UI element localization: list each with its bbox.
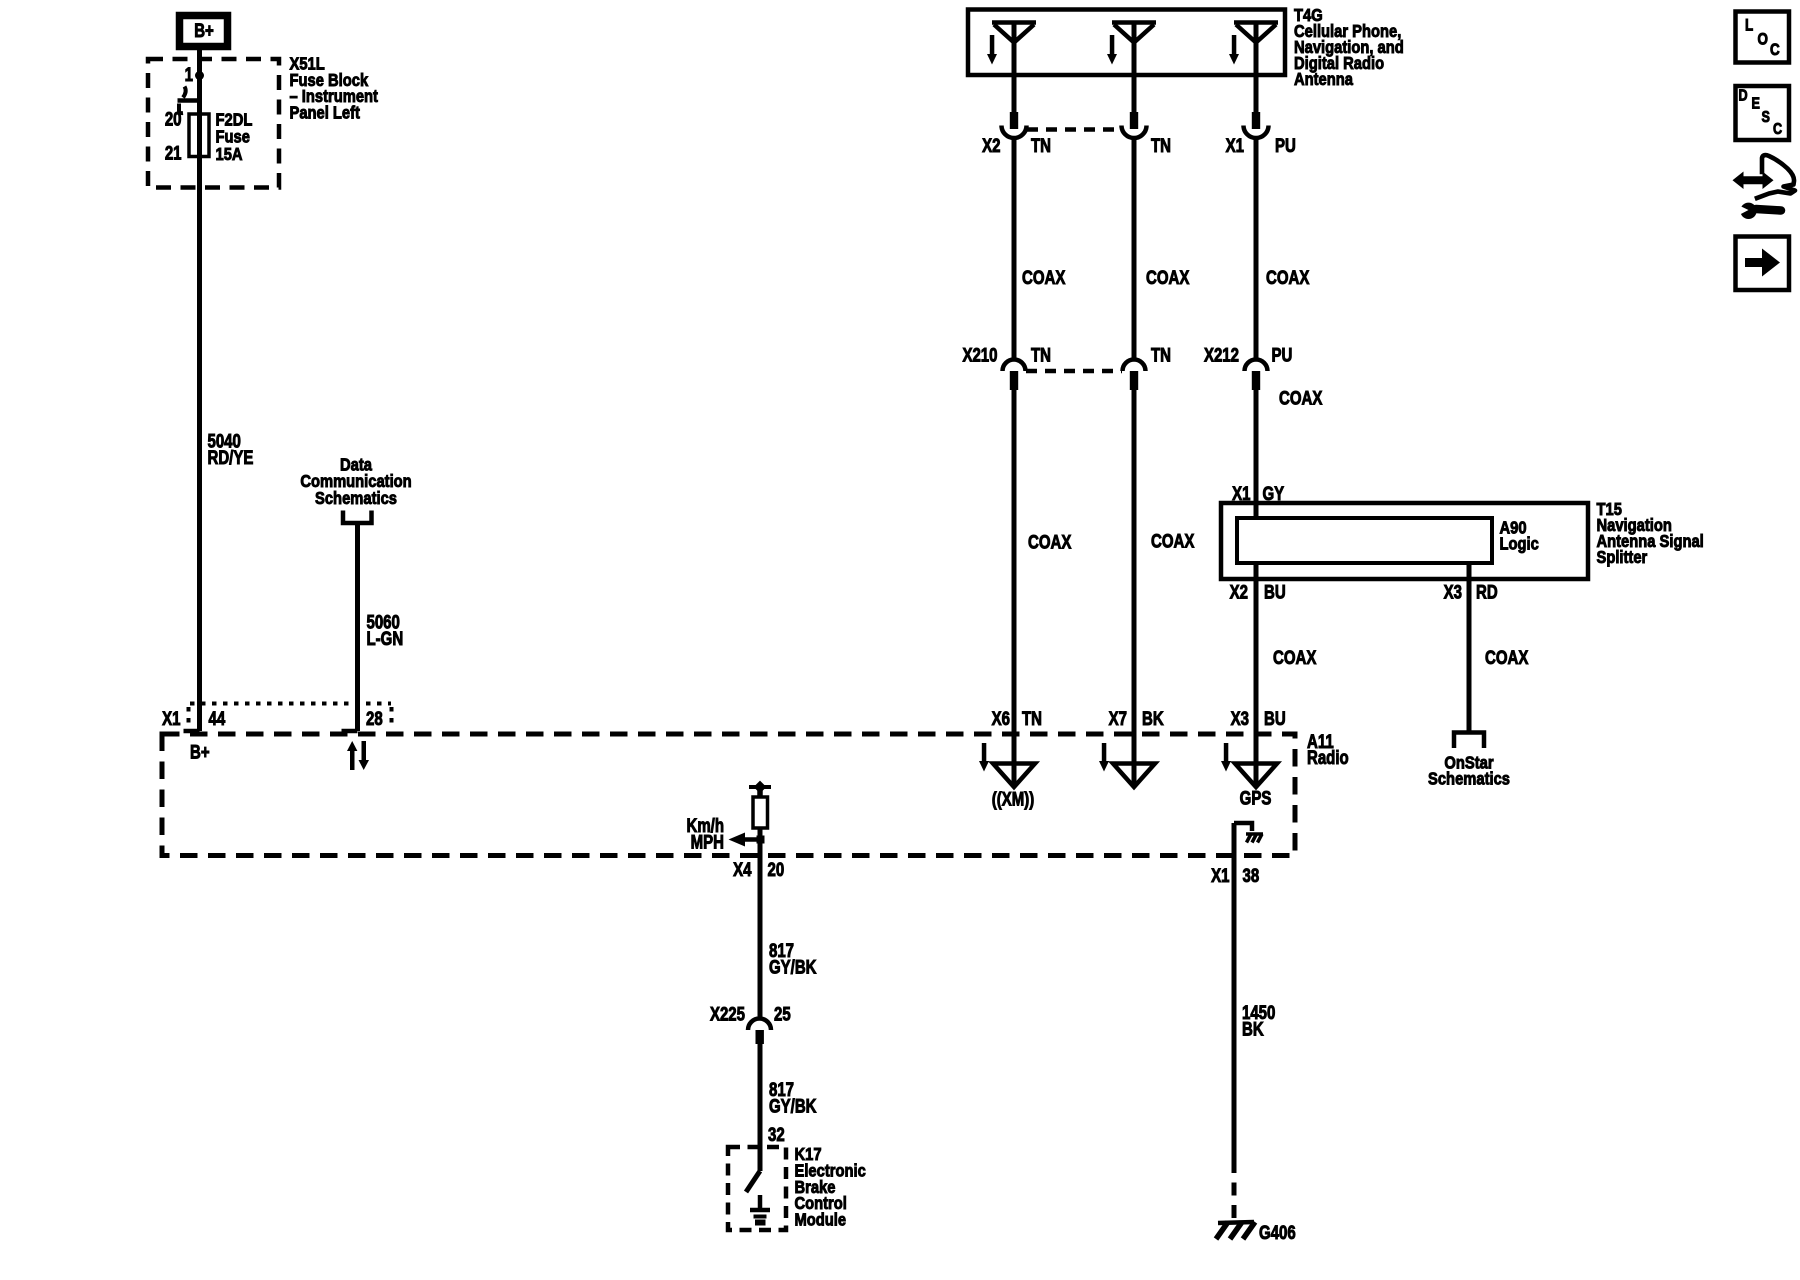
connector row1 male pin 1: [1010, 112, 1018, 129]
svg-text:X6: X6: [992, 708, 1010, 729]
coax wire col3 to splitter: [1254, 390, 1259, 518]
svg-text:TN: TN: [1022, 708, 1042, 729]
dashed connector link row1: [1027, 127, 1122, 132]
coax wire col3 upper: [1254, 139, 1259, 359]
svg-text:X4: X4: [733, 859, 752, 880]
svg-text:Module: Module: [795, 1210, 847, 1230]
signal down arrow aux: [1099, 743, 1109, 772]
svg-text:BK: BK: [1242, 1019, 1264, 1040]
svg-text:28: 28: [366, 708, 383, 729]
svg-text:BU: BU: [1264, 582, 1286, 603]
svg-text:COAX: COAX: [1022, 267, 1066, 288]
svg-text:GY/BK: GY/BK: [769, 1096, 817, 1117]
svg-text:B+: B+: [194, 20, 214, 41]
connector X225 male pin: [756, 1030, 764, 1044]
splitter T15 outer box: [1221, 503, 1588, 579]
svg-text:PU: PU: [1272, 345, 1293, 366]
wire splitter X2 output: [1254, 563, 1259, 787]
coax wire col1 upper: [1012, 139, 1017, 359]
terminal foot pin 28: [342, 729, 358, 734]
svg-text:X225: X225: [710, 1004, 745, 1025]
svg-text:X3: X3: [1231, 708, 1249, 729]
connector row1 male pin 3: [1252, 112, 1260, 129]
connector X225 female cup: [748, 1019, 771, 1031]
ground symbol inside K17: [750, 1195, 770, 1223]
svg-text:COAX: COAX: [1266, 267, 1310, 288]
svg-text:GY/BK: GY/BK: [769, 957, 817, 978]
svg-text:Schematics: Schematics: [315, 489, 397, 509]
icon DESC box: [1736, 86, 1790, 140]
svg-text:X1: X1: [1226, 135, 1245, 156]
coax wire col2 upper: [1132, 139, 1137, 359]
module K17 dashed box: [728, 1147, 786, 1230]
bus bar clip symbol: [178, 87, 202, 114]
junction dot speed signal: [757, 836, 765, 844]
svg-text:1: 1: [185, 64, 194, 85]
battery feed B+ symbol: [180, 16, 228, 47]
dashed connector link row2: [1026, 369, 1122, 374]
connector row1 female cup 3: [1244, 126, 1269, 139]
radio A11 dashed box: [162, 734, 1295, 856]
wire to K17: [758, 1044, 763, 1171]
svg-text:TN: TN: [1031, 345, 1051, 366]
svg-text:X3: X3: [1444, 582, 1462, 603]
svg-text:20: 20: [768, 859, 785, 880]
svg-text:BU: BU: [1264, 708, 1286, 729]
svg-text:COAX: COAX: [1146, 267, 1190, 288]
svg-text:25: 25: [774, 1004, 791, 1025]
connector row1 female cup 1: [1002, 126, 1027, 139]
connector row2 male pin 1: [1010, 371, 1018, 390]
svg-text:O: O: [1758, 30, 1769, 49]
svg-text:38: 38: [1243, 865, 1260, 886]
terminal foot pin 44: [184, 729, 200, 734]
svg-text:COAX: COAX: [1485, 647, 1529, 668]
svg-text:((XM)): ((XM)): [992, 789, 1034, 810]
connector row1 male pin 2: [1130, 112, 1138, 129]
node 1 junction dot: [195, 71, 204, 80]
svg-text:15A: 15A: [216, 145, 243, 165]
connector row1 female cup 2: [1122, 126, 1147, 139]
antenna 3 mast wire: [1254, 24, 1259, 113]
svg-text:20: 20: [165, 109, 182, 130]
switch inside K17: [746, 1171, 760, 1192]
connector row2 male pin 2: [1130, 371, 1138, 390]
svg-text:COAX: COAX: [1279, 388, 1323, 409]
svg-text:Logic: Logic: [1500, 534, 1539, 554]
svg-text:X212: X212: [1204, 345, 1239, 366]
svg-text:L: L: [1745, 16, 1753, 35]
svg-text:PU: PU: [1275, 135, 1296, 156]
svg-text:X2: X2: [1230, 582, 1248, 603]
wire splitter X3 output: [1467, 563, 1472, 732]
svg-text:D: D: [1739, 87, 1748, 105]
svg-text:Antenna: Antenna: [1294, 70, 1354, 90]
off-page bracket OnStar: [1454, 733, 1484, 749]
svg-text:44: 44: [209, 708, 226, 729]
signal down arrow XM: [979, 743, 989, 772]
svg-text:Splitter: Splitter: [1597, 548, 1648, 568]
svg-text:S: S: [1762, 109, 1771, 127]
connector row2 female cup 2: [1123, 360, 1146, 371]
gps shield ground branch: [1234, 823, 1252, 831]
radio antenna wedge aux: [1113, 764, 1155, 788]
svg-text:21: 21: [165, 143, 182, 164]
svg-text:Schematics: Schematics: [1428, 769, 1510, 789]
wire resistor to junction: [758, 828, 763, 843]
svg-text:GPS: GPS: [1240, 788, 1272, 809]
svg-text:BK: BK: [1142, 708, 1164, 729]
svg-text:TN: TN: [1031, 135, 1051, 156]
antenna 1 mast wire: [1012, 24, 1017, 113]
svg-text:X1: X1: [162, 708, 181, 729]
svg-text:X7: X7: [1109, 708, 1127, 729]
fuse block X51L dashed box: [148, 59, 279, 188]
svg-text:RD/YE: RD/YE: [208, 447, 254, 468]
connector row2 male pin 3: [1252, 371, 1260, 390]
serial data up/down arrows: [347, 741, 369, 770]
internal node T with dot: [749, 781, 771, 797]
connector X1 dotted bracket: [189, 704, 392, 727]
svg-text:COAX: COAX: [1151, 531, 1195, 552]
svg-text:E: E: [1752, 95, 1761, 113]
svg-text:COAX: COAX: [1028, 532, 1072, 553]
wire speed signal down: [758, 843, 763, 1018]
svg-text:L-GN: L-GN: [367, 628, 404, 649]
icon LOC box: [1736, 12, 1790, 63]
speed signal arrow to Km/h MPH: [729, 833, 761, 847]
coax wire col1 lower: [1012, 390, 1017, 787]
svg-text:TN: TN: [1151, 135, 1171, 156]
wire 5060 L-GN: [355, 523, 360, 731]
wire gps ground 1450 BK: [1232, 823, 1237, 1160]
ground G406 chassis symbol: [1216, 1222, 1255, 1239]
svg-text:MPH: MPH: [691, 832, 724, 853]
icon arrow box: [1736, 237, 1790, 291]
icon direction and wrench: [1733, 155, 1796, 219]
svg-text:B+: B+: [190, 742, 210, 763]
antenna module T4G box: [968, 10, 1285, 76]
svg-text:X2: X2: [982, 135, 1000, 156]
splitter A90 logic inner box: [1237, 518, 1492, 563]
svg-text:TN: TN: [1151, 345, 1171, 366]
off-page bracket data communication: [343, 511, 372, 524]
svg-text:Panel Left: Panel Left: [290, 103, 361, 123]
antenna symbol 3: [1234, 23, 1278, 43]
antenna 1 signal down arrow: [987, 35, 997, 65]
signal down arrow GPS: [1221, 743, 1231, 772]
svg-text:RD: RD: [1476, 582, 1498, 603]
coax wire col2 lower: [1132, 390, 1137, 787]
antenna symbol 2: [1112, 23, 1156, 43]
resistor speed signal: [753, 797, 768, 828]
connector row2 female cup 3: [1245, 360, 1268, 371]
svg-text:X210: X210: [962, 345, 997, 366]
wire dashed to G406: [1232, 1160, 1237, 1220]
radio antenna wedge GPS: [1235, 764, 1277, 788]
svg-text:C: C: [1770, 41, 1780, 60]
antenna 2 signal down arrow: [1107, 35, 1117, 65]
svg-text:COAX: COAX: [1273, 647, 1317, 668]
svg-text:C: C: [1773, 121, 1783, 139]
wire through fuse: [197, 114, 202, 731]
svg-text:32: 32: [768, 1124, 785, 1145]
wire B+ to fuse block: [197, 50, 202, 114]
antenna symbol 1: [992, 23, 1036, 43]
fuse F2DL 15A body: [189, 114, 209, 157]
chassis ground small: [1246, 834, 1263, 843]
svg-text:G406: G406: [1259, 1222, 1296, 1243]
antenna 3 signal down arrow: [1229, 35, 1239, 65]
svg-text:X1: X1: [1211, 865, 1230, 886]
connector row2 female cup 1: [1003, 360, 1026, 371]
svg-text:Radio: Radio: [1307, 747, 1349, 768]
antenna 2 mast wire: [1132, 24, 1137, 113]
radio antenna wedge XM: [993, 764, 1035, 788]
